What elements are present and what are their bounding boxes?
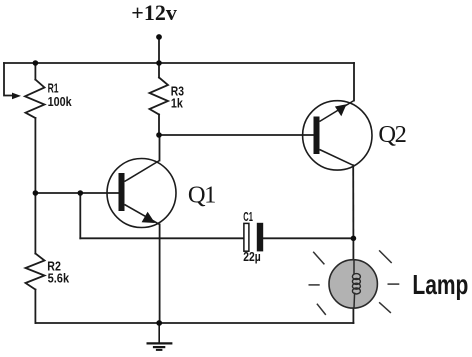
svg-text:R1: R1 <box>48 82 59 96</box>
svg-text:C1: C1 <box>243 210 253 224</box>
svg-text:1k: 1k <box>171 97 183 111</box>
resistor R3 body <box>150 78 169 115</box>
capacitor C1 <box>244 223 263 252</box>
wire R1 bottom to base node <box>34 118 36 193</box>
svg-text:Q1: Q1 <box>188 181 215 208</box>
wire lamp vertical <box>352 238 354 323</box>
resistor R2 body <box>26 254 45 290</box>
R1 wiper arrow <box>12 93 21 100</box>
svg-text:100k: 100k <box>48 95 72 109</box>
node supply rail / R3 top <box>156 60 162 66</box>
wire top supply rail <box>4 62 354 64</box>
wire C1 to lamp node <box>263 237 353 239</box>
svg-text:Q2: Q2 <box>378 121 405 148</box>
wire bottom ground rail <box>35 322 353 324</box>
svg-text:+12v: +12v <box>131 0 177 25</box>
wire R3 bottom stub <box>158 115 160 136</box>
node R3 bottom / Q1 collector <box>156 132 162 138</box>
wire +12v supply stub <box>158 37 160 63</box>
wire R2 top stub <box>34 193 36 254</box>
wire R3 top stub <box>158 63 160 78</box>
wire left bracket (R1 wiper tie) <box>4 63 14 96</box>
svg-text:5.6k: 5.6k <box>48 272 70 286</box>
wire feedback vertical <box>79 193 81 238</box>
wire Q2 emitter vertical <box>353 63 355 101</box>
wire Q2 collector vertical <box>352 165 354 238</box>
node +12v terminal <box>156 34 162 40</box>
wire Q1 emitter vertical <box>159 224 161 323</box>
wire R2 bottom stub <box>34 290 36 324</box>
node supply rail / R1 top <box>33 60 39 66</box>
svg-text:22µ: 22µ <box>243 250 261 264</box>
lamp light rays <box>309 250 400 315</box>
transistor Q1 <box>107 159 176 228</box>
junction node dots <box>33 34 357 326</box>
node feedback tap <box>78 190 84 196</box>
transistor Q2 <box>303 101 372 171</box>
wire Q1 collector vertical <box>159 135 161 161</box>
svg-text:Lamp: Lamp <box>412 269 468 300</box>
resistor R1 body <box>25 80 45 119</box>
wire collector-to-Q2-base rail <box>159 134 314 136</box>
lamp LP1 <box>329 260 377 309</box>
node ground junction <box>156 320 162 326</box>
wire R1 top stub <box>34 63 36 80</box>
wire Q1 base rail <box>35 192 118 194</box>
wire feedback horizontal to C1 <box>80 237 243 239</box>
node R1/R2/Q1 base <box>33 190 39 196</box>
node C1 / Q2 collector / lamp <box>351 236 357 242</box>
ground <box>147 323 173 350</box>
